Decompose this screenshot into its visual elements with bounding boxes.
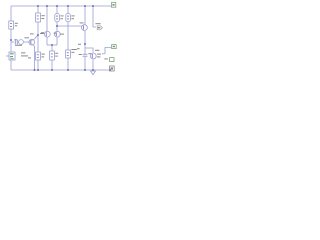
wire left rail R1 to node A: [10, 29, 12, 40]
wire Q1 emitter down: [34, 46, 36, 70]
wire col47 from rail to Q2: [46, 6, 48, 31]
label R4: [55, 53, 58, 57]
transistor Q1: [29, 39, 35, 46]
transistor Q2: [44, 31, 50, 37]
junction dot col57 y26: [56, 25, 58, 27]
wire col57 C2 to Q3: [56, 22, 58, 31]
wire col68 bottom: [67, 58, 69, 70]
wire top rail: [11, 5, 111, 7]
resistor R1: [9, 21, 14, 29]
junction dot bottom x85: [84, 69, 86, 71]
wire base line to Q4: [57, 25, 82, 27]
transistor Q4: [82, 25, 88, 31]
connector J1 bottom right: [110, 66, 115, 71]
resistor R3: [36, 52, 41, 60]
wire col85 rail to Q4 collector: [84, 6, 86, 25]
resistor R6: [66, 50, 71, 58]
junction dot bottom x93: [92, 69, 94, 71]
wire emitter bar: [47, 44, 57, 46]
label Q1: [30, 33, 44, 34]
label R1: [15, 23, 18, 27]
wire stub col38 top: [37, 6, 39, 13]
label R6: [71, 49, 77, 53]
junction dot top rail x47: [46, 5, 48, 7]
wire col68 middle: [67, 22, 69, 50]
capacitor C1 (horizontal electrolytic): [15, 40, 23, 45]
junction dot top rail x57: [56, 5, 58, 7]
wire Q4 emitter down to cap: [84, 31, 86, 54]
junction dot node A: [10, 39, 12, 41]
capacitor C3: [66, 13, 71, 21]
junction dot bottom rail end: [109, 69, 111, 71]
net label right lower: [104, 58, 114, 62]
label C3: [71, 15, 74, 19]
wire stub col57 top: [56, 6, 58, 13]
label Q4: [78, 22, 84, 44]
wire left rail node A to mic: [10, 40, 12, 52]
label Q5: [95, 50, 101, 58]
wire branch to Q5 collector: [85, 48, 93, 53]
junction dot top rail x68: [67, 5, 69, 7]
label C2: [60, 15, 63, 19]
wire right output riser: [105, 48, 111, 54]
junction dot emitter bar: [51, 44, 53, 46]
label R3: [41, 54, 44, 58]
net label right mid: [112, 45, 117, 49]
wire R4 bottom to rail: [51, 60, 53, 70]
label OUT: [95, 23, 100, 24]
junction dot top rail x38: [37, 5, 39, 7]
label C4: [77, 48, 91, 55]
microphone M1: [6, 52, 15, 60]
wire C1 left lead: [11, 41, 14, 43]
resistor R4: [50, 51, 55, 60]
wire bottom rail: [11, 69, 110, 71]
wire col38 middle: [37, 22, 39, 52]
connector OUT: [97, 26, 102, 30]
label C1: [15, 37, 29, 46]
junction dot bottom x52: [51, 69, 53, 71]
capacitor C2: [55, 13, 60, 21]
wire col38 bottom: [37, 60, 39, 70]
junction dot bottom x34.5: [34, 69, 36, 71]
label Q3: [54, 33, 64, 35]
wire Q5 emitter to rail: [92, 60, 94, 71]
net label ANT top right: [111, 3, 115, 8]
wire Q2 emitter down: [46, 38, 48, 46]
wire Q3 emitter down: [56, 38, 58, 46]
wire col93 rail to out: [93, 6, 96, 27]
transistor Q5: [90, 53, 96, 59]
wire stub col68 top: [67, 6, 69, 13]
resistor R2: [36, 13, 41, 22]
junction dot bottom x38: [37, 69, 39, 71]
label M1: [21, 52, 31, 58]
capacitor C4: [83, 54, 88, 56]
wire left rail upper: [10, 6, 12, 21]
wire C1 right lead to Q1 base: [24, 41, 29, 43]
label Q2: [41, 32, 44, 33]
transistor Q3: [54, 31, 60, 37]
wire cap bottom to rail: [84, 57, 86, 70]
junction dot Q4 emitter node: [84, 43, 86, 45]
junction dot top rail x85: [84, 5, 86, 7]
junction dot bottom x68: [67, 69, 69, 71]
wire antenna foot: [102, 53, 105, 55]
wire Q1 collector branch: [35, 35, 38, 39]
label R2: [41, 15, 44, 19]
wire left rail mic to bottom corner: [10, 60, 12, 70]
junction dot top rail x93: [92, 5, 94, 7]
ground: [91, 71, 96, 75]
wire center tap to R4: [51, 45, 53, 51]
junction dot col38 base node: [37, 34, 39, 36]
